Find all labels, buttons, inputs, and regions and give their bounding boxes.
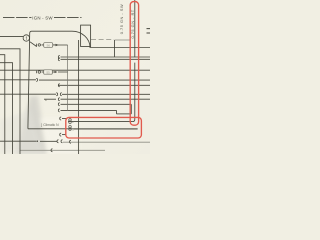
svg-text:0.75 GN - SW: 0.75 GN - SW (119, 4, 124, 34)
svg-text:Climatic N: Climatic N (43, 123, 59, 127)
svg-text:]: ] (41, 123, 42, 127)
svg-text:S5: S5 (46, 71, 50, 75)
svg-text:IGN - SW: IGN - SW (32, 15, 53, 20)
svg-text:S6: S6 (46, 44, 50, 48)
